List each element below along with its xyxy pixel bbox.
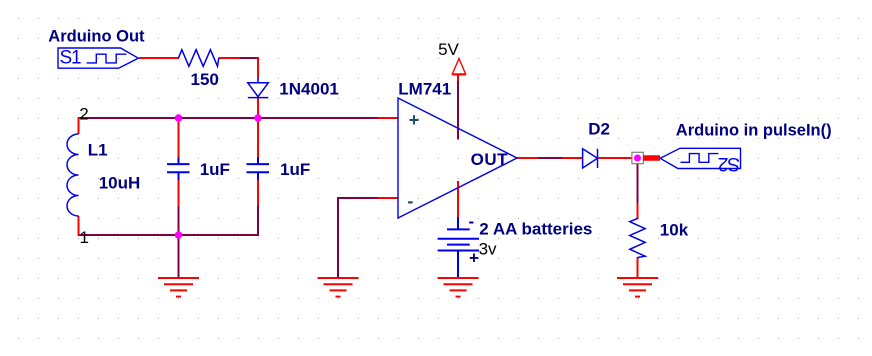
svg-text:Arduino Out: Arduino Out	[48, 28, 145, 46]
svg-text:1uF: 1uF	[280, 160, 310, 179]
svg-text:L1: L1	[88, 141, 108, 160]
svg-text:D2: D2	[588, 120, 610, 139]
svg-text:LM741: LM741	[398, 79, 451, 98]
svg-text:+: +	[469, 249, 479, 268]
svg-text:5V: 5V	[438, 40, 459, 59]
svg-text:2: 2	[79, 105, 88, 124]
svg-text:-: -	[469, 212, 475, 231]
svg-text:150: 150	[191, 70, 219, 89]
svg-text:1: 1	[80, 228, 89, 247]
svg-text:S2: S2	[719, 153, 740, 174]
svg-text:1uF: 1uF	[200, 160, 230, 179]
svg-text:10k: 10k	[660, 221, 689, 240]
svg-text:S1: S1	[60, 47, 81, 68]
svg-text:3v: 3v	[479, 240, 497, 259]
svg-text:-: -	[407, 191, 413, 211]
svg-text:2 AA batteries: 2 AA batteries	[479, 219, 592, 238]
svg-text:1N4001: 1N4001	[279, 80, 339, 99]
svg-text:+: +	[409, 110, 420, 130]
svg-text:OUT: OUT	[471, 150, 509, 169]
svg-text:Arduino in pulseIn(): Arduino in pulseIn()	[676, 122, 832, 140]
svg-text:10uH: 10uH	[99, 173, 141, 192]
